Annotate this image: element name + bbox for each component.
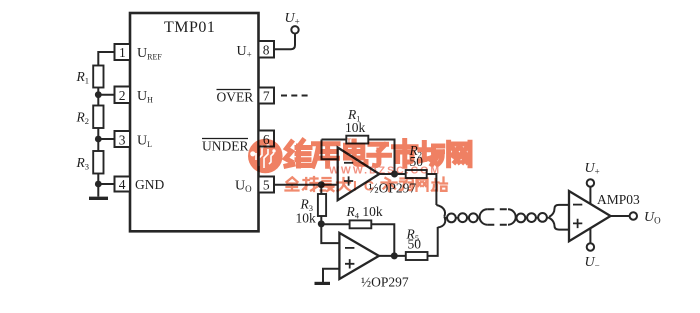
- U1 plus sign: [344, 176, 353, 185]
- U2 inverting input wire: [321, 224, 339, 243]
- right pin box 7: [259, 88, 275, 104]
- twist loop 4: [517, 214, 526, 223]
- node dot 3: [95, 136, 102, 143]
- U1 output node dot: [391, 171, 398, 178]
- char 库: [313, 144, 338, 167]
- U3 plus sign: [573, 219, 582, 228]
- U1 inverting input wire: [322, 140, 338, 160]
- 大: [337, 178, 350, 191]
- U1 output wire: [379, 173, 405, 175]
- resistor R5 50 (line): [406, 252, 428, 260]
- watermark big characters 维库电子市场网 (stylized strokes): [286, 141, 471, 167]
- resistor R2 (divider): [93, 106, 103, 129]
- char 子: [369, 144, 390, 165]
- wire R2 to twisted pair: [427, 174, 437, 205]
- twist loop 2: [458, 213, 467, 222]
- svg-text:WWW.DZSC.COM: WWW.DZSC.COM: [329, 165, 441, 177]
- ground bar (divider): [89, 197, 108, 200]
- U+ terminal circle: [291, 26, 298, 33]
- twisted pair connecting line right: [516, 217, 549, 219]
- watermark logo disc: [248, 139, 283, 174]
- U3 V- stub: [589, 229, 591, 244]
- right pin box 5: [259, 177, 275, 193]
- twisted pair connecting line left: [444, 217, 480, 219]
- svg-text:IC: IC: [353, 178, 381, 194]
- char 维: [286, 141, 312, 167]
- twisted pair left brace: [436, 205, 445, 228]
- char 网: [449, 142, 470, 166]
- U2 minus sign: [345, 247, 354, 249]
- resistor R3 10k (vertical): [320, 185, 322, 194]
- 球: [303, 177, 318, 191]
- U3 output wire: [611, 215, 630, 217]
- U2 output wire: [379, 255, 406, 257]
- left pin box 2: [115, 87, 131, 104]
- ground bar (U2): [315, 282, 331, 285]
- node dot R3 bottom: [318, 220, 325, 227]
- wire node to R4: [321, 223, 349, 225]
- resistor R4 10k: [350, 220, 372, 228]
- 购: [400, 179, 413, 191]
- char 市: [394, 141, 417, 167]
- watermark row3 全球最大IC采购网站 (stylized small glyphs): [286, 177, 448, 194]
- U2 non-inverting input to ground: [323, 269, 339, 283]
- 网: [417, 179, 428, 191]
- twist loop 3: [469, 213, 478, 222]
- left pin box 1: [115, 44, 131, 60]
- pin7 dashed stub: [281, 95, 309, 97]
- 站: [432, 178, 447, 191]
- wire pin8 to U+ terminal: [274, 34, 295, 50]
- twist loop 6: [538, 213, 547, 222]
- left pin box 3: [115, 131, 131, 147]
- char 电: [346, 141, 367, 164]
- Uo terminal circle: [630, 212, 637, 219]
- wire R2 to node3: [98, 128, 114, 139]
- node dot pin5/R3: [318, 181, 325, 188]
- U1 minus sign: [344, 162, 353, 164]
- wire node3 to R3: [97, 139, 99, 151]
- wire pin1 to divider: [98, 52, 114, 66]
- right pin box 6: [259, 131, 275, 147]
- op-amp U3 triangle AMP03: [569, 191, 611, 241]
- U- terminal circle (AMP03): [587, 243, 594, 250]
- IC body TMP01: [130, 13, 259, 231]
- 全: [286, 178, 299, 191]
- svg-text:TM: TM: [347, 138, 356, 145]
- op-amp U2 triangle (1/2 OP297 lower): [339, 233, 379, 279]
- right pin box 8: [259, 41, 275, 58]
- resistor R2 50 (line): [406, 170, 427, 178]
- twisted pair right brace to AMP03 inputs: [549, 205, 569, 217]
- wire R4 to output node of U2: [371, 224, 394, 256]
- wire node2 to R2: [97, 95, 99, 106]
- U3 minus sign: [573, 204, 582, 206]
- twist loop 1: [447, 214, 456, 223]
- char 场: [420, 143, 443, 165]
- wire pin5 to opamp1 + input: [274, 184, 338, 186]
- U3 V+ stub: [589, 187, 591, 204]
- U+ terminal circle (AMP03): [587, 179, 594, 186]
- U2 plus sign: [345, 259, 354, 268]
- resistor R3 (divider): [93, 151, 103, 174]
- node dot 4: [95, 181, 102, 188]
- left pin box 4: [115, 177, 131, 192]
- wire R5 to twisted pair: [428, 227, 438, 256]
- twist loop 5: [527, 213, 536, 222]
- feedback wire to R1: [322, 139, 347, 141]
- 最: [321, 178, 334, 191]
- 采: [382, 178, 397, 191]
- op-amp U1 triangle (1/2 OP297 upper): [338, 148, 380, 201]
- feedback wire R1 to output: [368, 140, 394, 175]
- U2 output node dot: [391, 252, 398, 259]
- wire R1 to node2: [98, 88, 114, 95]
- cable oval (dashed): [487, 209, 508, 224]
- resistor R1 10k (feedback): [346, 136, 368, 144]
- resistor R1 (divider): [93, 66, 103, 88]
- wire R3 to node4 and ground: [98, 174, 114, 197]
- node dot 2: [95, 91, 102, 98]
